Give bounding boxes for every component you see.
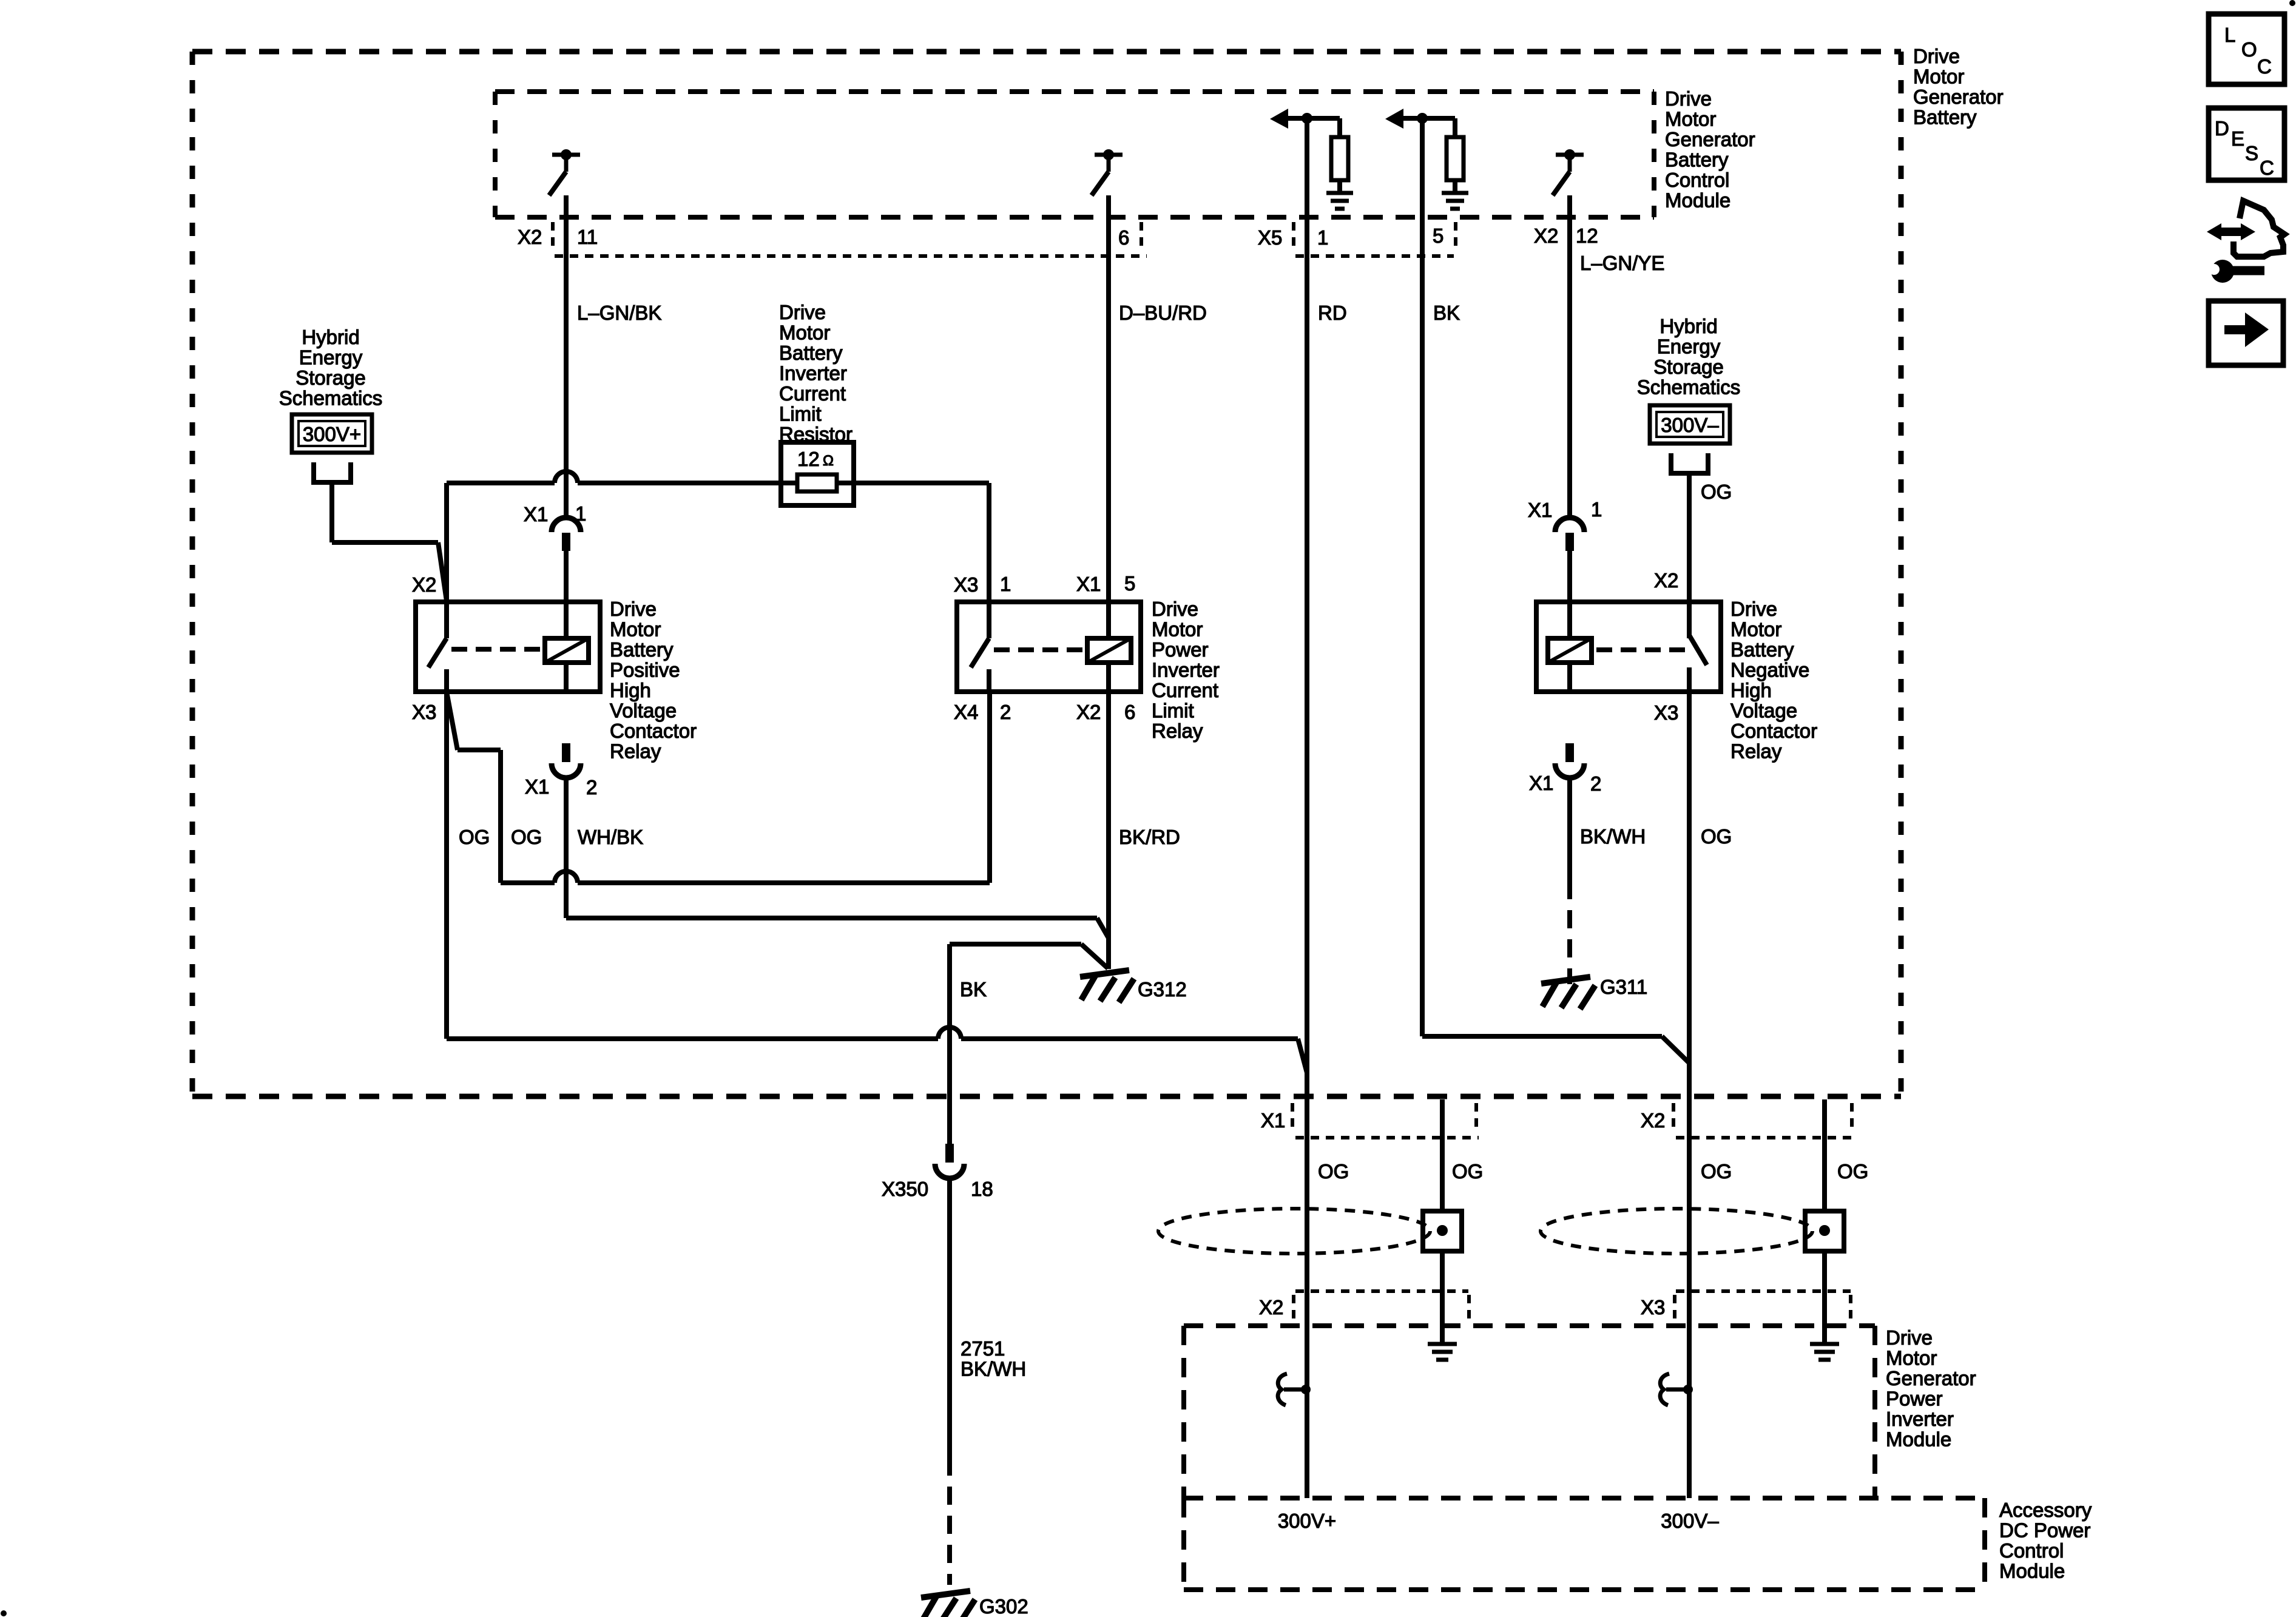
wire WH/BK slant into ground node [1097, 918, 1109, 938]
label K2 pin X3 [954, 573, 978, 596]
svg-text:L: L [2224, 24, 2235, 46]
label pin 1 (inline connector upper) [575, 502, 586, 525]
svg-text:Hybrid: Hybrid [1660, 315, 1717, 337]
svg-text:Relay: Relay [1152, 720, 1203, 742]
svg-text:Power: Power [1152, 638, 1209, 661]
svg-text:BK: BK [1433, 302, 1460, 324]
net BK arrow + pull resistor + ground (X5-5) [1385, 109, 1468, 209]
svg-text:Drive: Drive [1886, 1326, 1933, 1349]
wire BK/WH dashed to G302 [947, 1457, 952, 1585]
connector X2 left tick [551, 222, 555, 250]
label X1 (right inline connector) [1528, 499, 1552, 521]
svg-text:G302: G302 [979, 1595, 1028, 1617]
label pin 6 [1118, 226, 1129, 249]
label wire colour WH/BK [578, 826, 643, 848]
wire junction dot, page corner mark top-right [2289, 0, 2295, 6]
label 300V- (reference) [1661, 414, 1719, 436]
svg-text:Relay: Relay [1730, 740, 1782, 763]
wire D-BU/RD / BK-RD down to ground [1106, 692, 1111, 969]
label: Drive Motor Generator Battery Control Module [1665, 87, 1755, 212]
svg-text:X350: X350 [882, 1178, 928, 1200]
wire L-GN/BK into relay K1 [564, 551, 569, 638]
svg-text:6: 6 [1118, 226, 1129, 249]
wire hop over L-GN/BK [555, 471, 578, 483]
svg-text:High: High [1730, 679, 1772, 701]
svg-text:X1: X1 [1528, 499, 1552, 521]
svg-text:X2: X2 [412, 573, 436, 596]
label K2 pin X2 [1076, 701, 1101, 723]
svg-text:High: High [610, 679, 651, 701]
wire through K2 coil [1106, 663, 1111, 692]
label K2 pin X1 [1076, 573, 1101, 595]
relay K3 box: Drive Motor Battery Negative High Voltage Contactor Relay [1536, 602, 1721, 692]
svg-text:Current: Current [779, 382, 846, 405]
svg-text:OG: OG [1837, 1160, 1868, 1183]
svg-text:Inverter: Inverter [1152, 659, 1220, 681]
wire OG/300V- vertical below relay K3 [1687, 692, 1692, 1498]
svg-text:2: 2 [586, 776, 597, 798]
wire OG vertical (second) [498, 750, 503, 883]
off-page reference box 300V- [1650, 405, 1730, 444]
svg-text:G312: G312 [1138, 978, 1187, 1001]
svg-text:1: 1 [1317, 226, 1328, 249]
label pin 18 [971, 1178, 993, 1200]
svg-text:X2: X2 [1654, 569, 1678, 592]
legend icon wrench [2207, 260, 2264, 283]
svg-text:6: 6 [1124, 701, 1135, 723]
label: Hybrid Energy Storage Schematics (left) [279, 326, 383, 410]
svg-text:Generator: Generator [1913, 86, 2004, 108]
connector X1 left tick [1291, 1103, 1294, 1133]
connector X2 right tick (bottom) [1467, 1295, 1471, 1323]
svg-text:G311: G311 [1600, 976, 1647, 998]
svg-text:O: O [2241, 38, 2257, 61]
wire through K1 coil [564, 661, 569, 692]
svg-text:D–BU/RD: D–BU/RD [1119, 302, 1207, 324]
label pin 12 [1576, 224, 1598, 247]
svg-text:X2: X2 [518, 226, 542, 248]
svg-text:X2: X2 [1534, 224, 1558, 247]
svg-text:Voltage: Voltage [610, 700, 677, 722]
switch S1 in control module (L-GN/BK output) [549, 149, 580, 195]
svg-text:BK/WH: BK/WH [1580, 825, 1646, 848]
wire shield drain right [1822, 1099, 1827, 1211]
svg-text:X3: X3 [1641, 1296, 1665, 1318]
wire resistor feed horizontal (to resistor) [578, 481, 783, 485]
svg-text:300V–: 300V– [1661, 414, 1719, 436]
inline connector X1 pin 1 right (terminal bar) [1565, 533, 1574, 551]
svg-text:Energy: Energy [1657, 336, 1721, 358]
wire shield to ground (left) [1440, 1251, 1445, 1344]
legend icon vehicle outline with arrow [2207, 201, 2284, 257]
svg-text:BK/RD: BK/RD [1119, 826, 1180, 848]
connector X2 body line (pins 11,6) dotted [555, 254, 1147, 258]
svg-text:1: 1 [1000, 573, 1011, 595]
svg-text:Limit: Limit [1152, 700, 1194, 722]
inline connector X1 pin 1 (cup) [552, 518, 581, 532]
wire BK slant into G312 node [1081, 944, 1108, 968]
svg-text:2751: 2751 [961, 1337, 1005, 1360]
wire BK corner to G312 (horizontal) [950, 942, 1081, 947]
label: Drive Motor Generator Battery (outer box title) [1913, 45, 2004, 129]
svg-text:X4: X4 [954, 701, 978, 723]
svg-text:BK/WH: BK/WH [961, 1358, 1026, 1380]
svg-text:E: E [2231, 127, 2244, 150]
svg-text:OG: OG [1701, 1160, 1732, 1183]
label wire colour D-BU/RD [1119, 302, 1207, 324]
svg-text:X2: X2 [1641, 1109, 1665, 1132]
ground G302 [921, 1591, 975, 1617]
wire shield drain left [1440, 1099, 1445, 1211]
relay K3 actuation link (dashed) [1596, 647, 1686, 652]
svg-text:Voltage: Voltage [1730, 700, 1797, 722]
svg-text:Relay: Relay [610, 740, 661, 763]
svg-text:Resistor: Resistor [779, 423, 853, 445]
relay K1 coil [545, 638, 589, 663]
svg-text:Inverter: Inverter [1886, 1408, 1954, 1430]
signal ground (shield right) [1810, 1344, 1839, 1360]
label K3 pin X3 [1654, 701, 1678, 724]
svg-text:DC Power: DC Power [1999, 1519, 2090, 1542]
wire 300V+ slant into relay K1 X2 [438, 542, 447, 601]
connector X2 right-pair left tick [1672, 1103, 1675, 1133]
svg-text:Ω: Ω [823, 453, 834, 469]
wire OG slant from relay K1 X3 [447, 692, 458, 750]
label K1 pin X2 [412, 573, 436, 596]
relay K3 coil [1548, 638, 1592, 663]
svg-text:X1: X1 [1261, 1109, 1285, 1132]
label: Drive Motor Battery Positive High Voltage Contactor Relay [610, 598, 697, 763]
svg-text:Motor: Motor [1730, 618, 1781, 641]
label connector X2 (bottom right) [1641, 1109, 1665, 1132]
inline connector X1 pin 2 (terminal bar) [562, 743, 570, 762]
svg-text:300V+: 300V+ [303, 423, 361, 445]
inline connector X1 pin 2 right (cup) [1555, 763, 1584, 778]
svg-text:Motor: Motor [1913, 66, 1964, 88]
connector X2 (bottom right pair) dotted line [1676, 1136, 1852, 1139]
label K2 pin 5 [1124, 572, 1135, 595]
svg-text:Drive: Drive [1730, 598, 1777, 620]
net RD arrow + pull resistor + ground (X5-1) [1270, 109, 1353, 209]
shield termination dot (left) [1437, 1225, 1448, 1236]
label: Drive Motor Battery Inverter Current Limit Resistor [779, 301, 853, 445]
label wire colour OG (300V- lower) [1701, 1160, 1732, 1183]
svg-text:Contactor: Contactor [610, 720, 697, 742]
wire resistor feed horizontal (left span) [447, 481, 555, 485]
svg-text:Control: Control [1999, 1539, 2064, 1562]
svg-text:Drive: Drive [1665, 87, 1712, 110]
svg-text:Control: Control [1665, 169, 1729, 191]
resistor element 12 ohm [783, 474, 851, 491]
svg-text:Motor: Motor [1152, 618, 1203, 641]
page corner mark bottom-left [1, 1610, 7, 1616]
label wire colour BK (lower) [960, 978, 987, 1001]
inline connector X1 pin 2 (cup) [552, 763, 581, 778]
connector X2 right-pair right tick [1850, 1103, 1854, 1133]
label K2 pin 2 [1000, 701, 1011, 723]
connector X5 right tick [1454, 222, 1457, 250]
off-page reference box 300V+ [292, 414, 372, 453]
label circuit 2751 BK/WH [961, 1337, 1026, 1380]
wire WH/BK vertical [564, 777, 569, 918]
inline connector X350 pin 18 (cup) [935, 1164, 964, 1178]
svg-text:X5: X5 [1258, 226, 1282, 249]
wire OG horizontal to relay K2 X4 [501, 880, 990, 885]
label connector X2 (left) [518, 226, 542, 248]
wire BK slant joining OG/300V- line [1662, 1036, 1689, 1063]
svg-text:Energy: Energy [299, 346, 363, 369]
svg-text:11: 11 [577, 226, 598, 248]
wire hop over BK [938, 1027, 961, 1039]
label connector X3 (bottom right) [1641, 1296, 1665, 1318]
splice clip on 300V- line [1660, 1374, 1693, 1405]
resistor box: Drive Motor Battery Inverter Current Limit Resistor [781, 442, 854, 505]
label pin 5 (X5) [1433, 224, 1443, 247]
wire OG jog horizontal [458, 748, 501, 752]
svg-text:X3: X3 [1654, 701, 1678, 724]
svg-text:Motor: Motor [1886, 1347, 1937, 1369]
svg-text:Current: Current [1152, 679, 1218, 701]
svg-text:X1: X1 [525, 775, 549, 798]
svg-text:1: 1 [575, 502, 586, 525]
svg-text:Battery: Battery [1913, 106, 1977, 129]
label wire colour RD [1318, 302, 1347, 324]
module box: Accessory DC Power Control Module (dashed) [1184, 1498, 1985, 1590]
label: Accessory DC Power Control Module [1999, 1499, 2092, 1582]
relay K2 actuation link (dashed) [994, 647, 1086, 652]
svg-text:Drive: Drive [779, 301, 826, 323]
wire BK horizontal to 300V- net [1422, 1034, 1662, 1039]
label wire colour OG (second) [511, 826, 542, 848]
svg-text:Inverter: Inverter [779, 362, 847, 385]
svg-text:WH/BK: WH/BK [578, 826, 643, 848]
svg-text:X1: X1 [1529, 772, 1553, 794]
label: Hybrid Energy Storage Schematics (right) [1637, 315, 1741, 399]
label pin 2 (right lower connector) [1590, 772, 1601, 795]
svg-text:Motor: Motor [779, 322, 830, 344]
svg-text:18: 18 [971, 1178, 993, 1200]
svg-text:BK: BK [960, 978, 987, 1001]
svg-text:OG: OG [511, 826, 542, 848]
svg-text:Contactor: Contactor [1730, 720, 1817, 742]
ground G312 [1080, 970, 1134, 1002]
svg-text:Generator: Generator [1665, 128, 1755, 150]
wire OG long horizontal to 300V+ net [447, 1036, 1298, 1041]
label wire colour OG (300V+ lower) [1318, 1160, 1349, 1183]
label 300V+ (bottom) [1278, 1510, 1336, 1532]
wire 2751 BK/WH vertical [947, 1177, 952, 1457]
label 12 ohm [797, 448, 834, 470]
label K2 pin 6 [1124, 701, 1135, 723]
svg-text:Limit: Limit [779, 403, 822, 425]
label G302 [979, 1595, 1028, 1617]
wire D-BU/RD vertical (pin 6 to relay K2 coil) [1106, 195, 1111, 638]
svg-text:C: C [2260, 157, 2274, 179]
label pin 2 (left lower connector) [586, 776, 597, 798]
svg-text:Module: Module [1886, 1428, 1951, 1451]
label wire colour BK/WH (right) [1580, 825, 1646, 848]
label connector X2 (right) [1534, 224, 1558, 247]
svg-text:X1: X1 [524, 503, 548, 525]
svg-text:RD: RD [1318, 302, 1347, 324]
wire OG from 300V- down to relay K3 X2 [1687, 473, 1692, 638]
label K2 pin 1 [1000, 573, 1011, 595]
svg-text:S: S [2245, 142, 2258, 164]
svg-text:Drive: Drive [610, 598, 657, 620]
wire BK vertical [947, 944, 952, 1144]
label wire colour BK (upper) [1433, 302, 1460, 324]
label: Drive Motor Power Inverter Current Limit Relay [1152, 598, 1220, 742]
label X1 (left lower connector) [525, 775, 549, 798]
wire relay K2 X4-2 leg [987, 692, 992, 883]
svg-text:1: 1 [1591, 498, 1602, 521]
label K1 pin X3 [412, 701, 436, 723]
wire L-GN/YE vertical (X2-12 down) [1567, 195, 1572, 518]
shield termination dot (right) [1819, 1225, 1830, 1236]
svg-text:Battery: Battery [779, 342, 843, 364]
switch S2 in control module (D-BU/RD output) [1092, 149, 1123, 195]
svg-text:Storage: Storage [1653, 356, 1724, 378]
svg-text:Accessory: Accessory [1999, 1499, 2092, 1521]
label G311 [1600, 976, 1647, 998]
svg-text:OG: OG [1318, 1160, 1349, 1183]
label K2 pin X4 [954, 701, 978, 723]
svg-text:X3: X3 [954, 573, 978, 596]
legend icon forward arrow [2209, 301, 2283, 365]
wire through K3 coil [1567, 663, 1572, 692]
svg-text:Schematics: Schematics [1637, 376, 1741, 399]
svg-text:OG: OG [1701, 825, 1732, 848]
wire OG vertical below relay K1 X3 [444, 692, 449, 1039]
relay K2 coil [1087, 638, 1131, 663]
switch S3 in control module (L-GN/YE output) [1553, 149, 1584, 195]
svg-text:Battery: Battery [1665, 149, 1729, 171]
svg-text:5: 5 [1124, 572, 1135, 595]
module box: Drive Motor Generator Battery Control Module (dashed) [495, 92, 1654, 217]
svg-text:300V–: 300V– [1661, 1510, 1719, 1532]
wire BK/WH below K3 [1567, 777, 1572, 899]
svg-text:2: 2 [1000, 701, 1011, 723]
svg-text:Power: Power [1886, 1388, 1943, 1410]
wire 300V+ feed right [332, 540, 438, 545]
label X350 [882, 1178, 928, 1200]
svg-text:Hybrid: Hybrid [302, 326, 359, 348]
label wire colour L-GN/YE [1580, 252, 1664, 274]
label connector X1 (bottom) [1261, 1109, 1285, 1132]
label X1 (right lower connector) [1529, 772, 1553, 794]
label X1 (inline connector upper) [524, 503, 548, 525]
svg-text:12: 12 [1576, 224, 1598, 247]
svg-text:2: 2 [1590, 772, 1601, 795]
relay K1 box: Drive Motor Battery Positive High Voltage Contactor Relay [416, 602, 600, 692]
svg-text:Drive: Drive [1913, 45, 1960, 67]
label wire colour OG (300V- feed) [1701, 481, 1732, 503]
connector X1 right tick [1474, 1103, 1478, 1133]
wire hop over WH/BK [555, 871, 578, 883]
module box: Drive Motor Generator Battery (outer dashed boundary) [192, 52, 1901, 1096]
shield termination box (right) [1805, 1211, 1844, 1251]
legend icon DESC [2209, 108, 2284, 180]
svg-text:Motor: Motor [610, 618, 661, 641]
svg-text:Battery: Battery [610, 638, 674, 661]
connector X5 left tick [1292, 222, 1295, 250]
svg-text:X3: X3 [412, 701, 436, 723]
wire 300V+ feed down [329, 482, 334, 542]
wire L-GN/YE into relay K3 coil [1567, 551, 1572, 638]
label wire colour OG (shield right) [1837, 1160, 1868, 1183]
inline connector X1 pin 2 right (terminal bar) [1565, 743, 1574, 762]
ground G311 [1541, 977, 1595, 1009]
connector X2 (bottom left pair) dotted line [1295, 1289, 1468, 1293]
signal ground (shield left) [1428, 1344, 1457, 1360]
svg-text:D: D [2215, 117, 2229, 140]
wire L-GN/BK vertical (X2-11 to relay coil) [564, 195, 569, 518]
inline connector X1 pin 1 (terminal bar) [562, 533, 570, 551]
svg-text:Negative: Negative [1730, 659, 1809, 681]
svg-text:L–GN/BK: L–GN/BK [577, 302, 661, 324]
label wire colour L-GN/BK [577, 302, 661, 324]
label G312 [1138, 978, 1187, 1001]
svg-text:Generator: Generator [1886, 1367, 1976, 1389]
wire WH/BK horizontal [566, 916, 1097, 920]
svg-text:OG: OG [1452, 1160, 1483, 1183]
svg-text:C: C [2257, 55, 2272, 78]
inline connector X1 pin 1 right (cup) [1555, 518, 1584, 532]
label: Drive Motor Generator Power Inverter Module [1886, 1326, 1976, 1451]
inline connector X350 pin 18 (terminal bar) [945, 1144, 954, 1163]
label K3 pin X2 [1654, 569, 1678, 592]
svg-text:Module: Module [1999, 1560, 2065, 1582]
svg-text:X2: X2 [1259, 1296, 1283, 1318]
connector X2 right tick [1140, 222, 1143, 250]
svg-text:Storage: Storage [295, 366, 366, 389]
relay K1 switch contact [428, 602, 447, 692]
connector X1 (bottom left pair) dotted line [1295, 1136, 1479, 1139]
svg-text:L–GN/YE: L–GN/YE [1580, 252, 1664, 274]
twisted/shielded cable ellipse (left) [1158, 1209, 1430, 1254]
shield termination box (left) [1423, 1211, 1462, 1251]
svg-text:Positive: Positive [610, 659, 680, 681]
label wire colour OG (shield left) [1452, 1160, 1483, 1183]
relay K2 switch contact [971, 602, 989, 692]
label wire colour OG (below K3) [1701, 825, 1732, 848]
wire resistor feed vertical (relay K1 X2 node up) [444, 483, 449, 602]
label pin 1 (right inline connector) [1591, 498, 1602, 521]
wire RD vertical (X5-1 down to 300V+) [1305, 118, 1309, 1498]
label 300V- (bottom) [1661, 1510, 1719, 1532]
legend icon LOC [2209, 14, 2284, 84]
label 300V+ (reference) [303, 423, 361, 445]
label connector X2 (bottom left) [1259, 1296, 1283, 1318]
connector X2 left tick (bottom) [1292, 1295, 1295, 1323]
relay K3 switch contact [1689, 602, 1707, 692]
svg-text:5: 5 [1433, 224, 1443, 247]
svg-text:Motor: Motor [1665, 108, 1716, 130]
bracket under 300V+ box [311, 462, 353, 482]
svg-text:X1: X1 [1076, 573, 1101, 595]
wire OG slant joining RD/300V+ line [1298, 1039, 1307, 1073]
svg-text:12: 12 [797, 448, 820, 470]
connector X3 left tick [1673, 1295, 1676, 1323]
svg-text:OG: OG [459, 826, 490, 848]
svg-text:Drive: Drive [1152, 598, 1198, 620]
wire BK vertical (X5-5 down) [1420, 118, 1425, 1036]
connector X5 body line (pins 1,5) dotted [1295, 254, 1454, 258]
svg-text:X2: X2 [1076, 701, 1101, 723]
module box: Drive Motor Generator Power Inverter Module (dashed) [1184, 1326, 1875, 1498]
label wire colour BK/RD [1119, 826, 1180, 848]
bracket under 300V- box [1669, 453, 1710, 473]
